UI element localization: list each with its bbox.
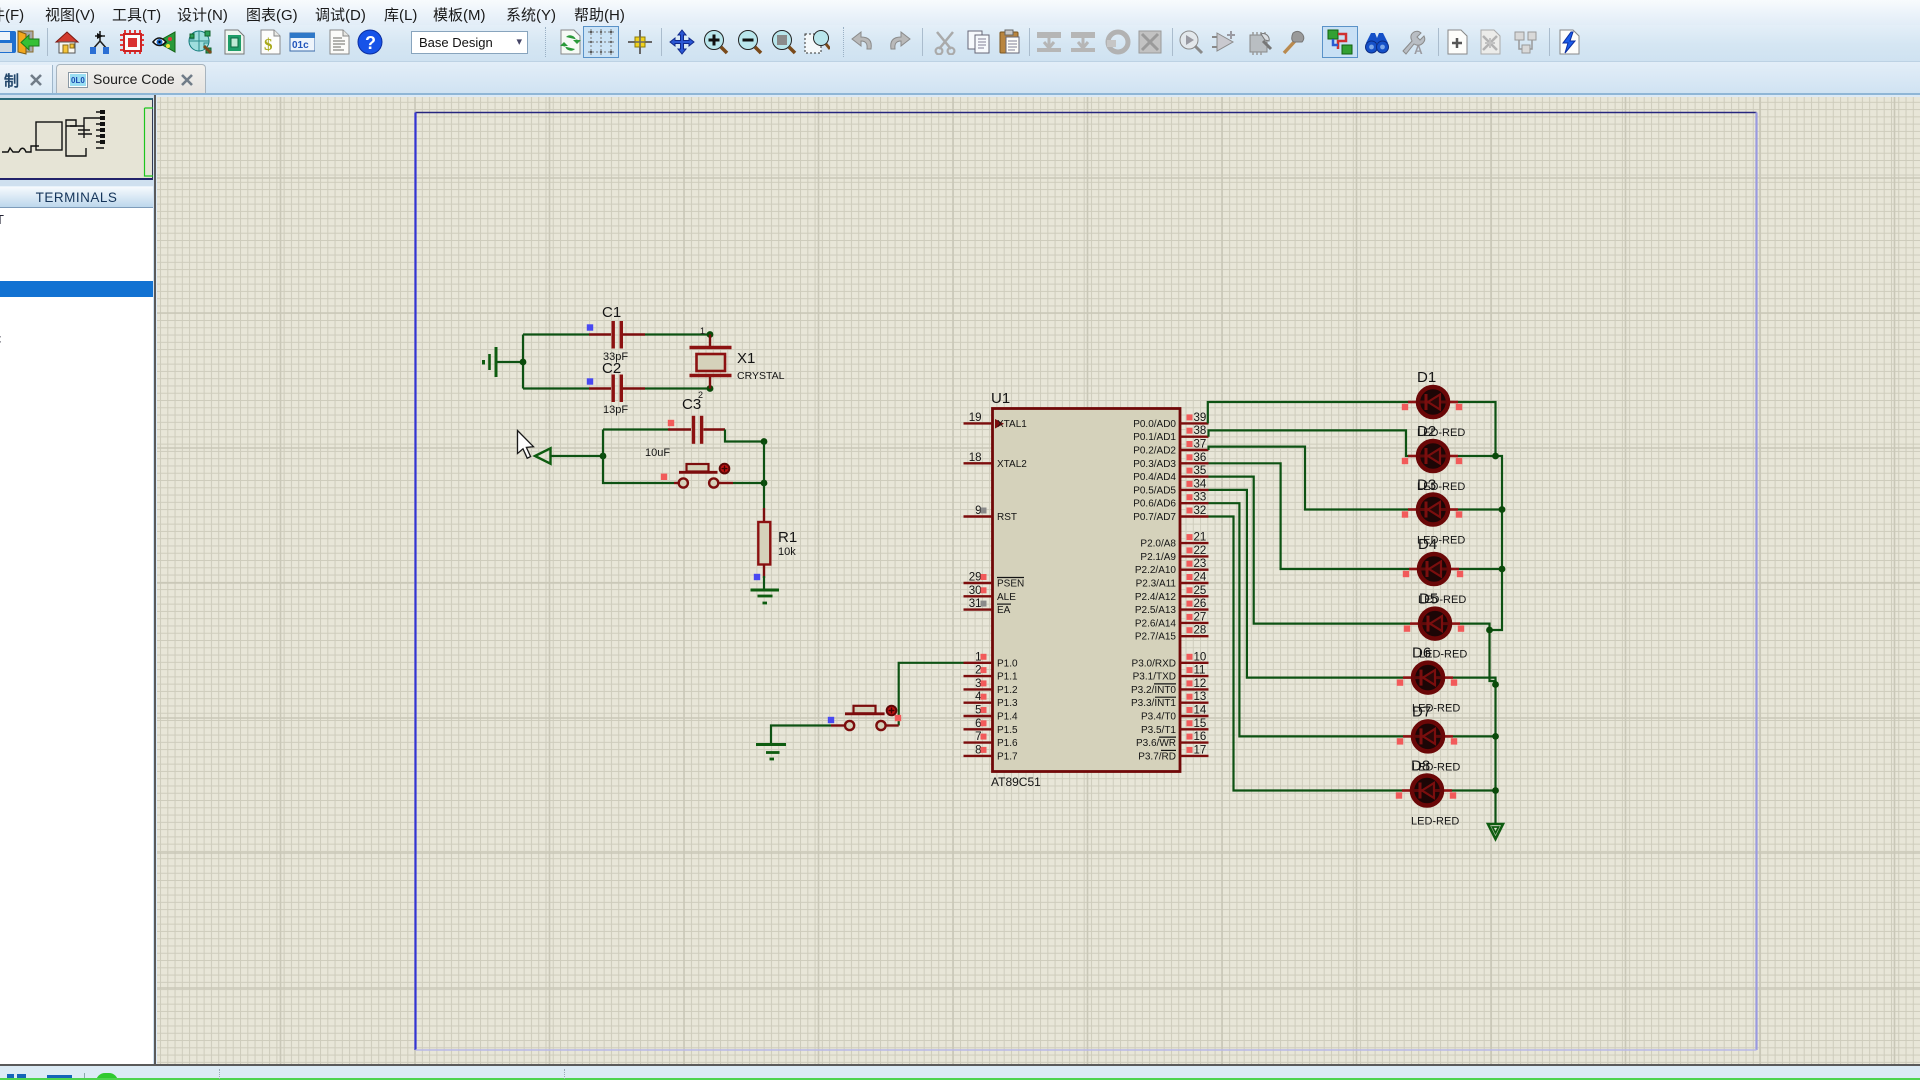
- svg-text:24: 24: [1194, 572, 1207, 584]
- svg-text:14: 14: [1194, 705, 1207, 717]
- svg-text:EA: EA: [997, 605, 1011, 616]
- svg-text:U1: U1: [991, 390, 1010, 407]
- svg-text:01c: 01c: [292, 40, 309, 51]
- LED D7: [1397, 703, 1461, 773]
- svg-text:D6: D6: [1412, 645, 1431, 662]
- wire P0 to D2: [1209, 430, 1409, 456]
- svg-text:35: 35: [1194, 465, 1207, 477]
- svg-text:D1: D1: [1417, 369, 1436, 386]
- svg-text:ALE: ALE: [997, 592, 1016, 603]
- wire button to R1 node: [733, 442, 767, 509]
- svg-text:P2.7/A15: P2.7/A15: [1135, 632, 1177, 643]
- svg-text:17: 17: [1194, 744, 1207, 756]
- svg-text:31: 31: [969, 598, 982, 610]
- svg-text:0L0: 0L0: [71, 76, 85, 85]
- svg-text:C1: C1: [602, 304, 621, 321]
- svg-text:P1.3: P1.3: [997, 698, 1018, 709]
- capacitor C3: [603, 396, 725, 459]
- wire C3-left / button row: [603, 430, 674, 484]
- svg-text:P1.6: P1.6: [997, 738, 1018, 749]
- svg-text:P3.7/RD: P3.7/RD: [1138, 751, 1176, 762]
- svg-text:25: 25: [1194, 585, 1207, 597]
- svg-text:P2.0/A8: P2.0/A8: [1140, 539, 1176, 550]
- svg-text:27: 27: [1194, 611, 1207, 623]
- ground (below R1): [751, 590, 780, 603]
- svg-text:18: 18: [969, 452, 982, 464]
- wire P0 to D5: [1209, 477, 1411, 624]
- svg-text:34: 34: [1194, 478, 1207, 490]
- wire ground to C1/C2: [497, 335, 526, 389]
- LED D2: [1402, 423, 1466, 493]
- input terminal arrow: [535, 448, 606, 463]
- svg-text:P3.0/RXD: P3.0/RXD: [1132, 658, 1176, 669]
- svg-text:10uF: 10uF: [645, 447, 670, 459]
- svg-text:XTAL2: XTAL2: [997, 459, 1027, 470]
- U1 left pins: [964, 412, 1028, 763]
- status bar: [0, 1064, 1920, 1080]
- push button (P1.0): [828, 706, 899, 730]
- svg-text:23: 23: [1194, 558, 1207, 570]
- svg-text:D3: D3: [1417, 477, 1436, 494]
- svg-text:P3.5/T1: P3.5/T1: [1141, 725, 1176, 736]
- LED D6: [1397, 645, 1461, 715]
- svg-text:P3.1/TXD: P3.1/TXD: [1133, 672, 1176, 683]
- svg-text:P2.5/A13: P2.5/A13: [1135, 605, 1177, 616]
- svg-text:32: 32: [1194, 505, 1207, 517]
- wire P0 to D3: [1209, 447, 1409, 510]
- svg-text:16: 16: [1194, 731, 1207, 743]
- svg-text:28: 28: [1194, 625, 1207, 637]
- svg-text:D5: D5: [1419, 591, 1438, 608]
- object selector sidebar: [0, 95, 156, 1064]
- svg-text:P0.6/AD6: P0.6/AD6: [1133, 499, 1176, 510]
- svg-text:15: 15: [1194, 718, 1207, 730]
- svg-text:12: 12: [1194, 678, 1207, 690]
- svg-text:P2.6/A14: P2.6/A14: [1135, 618, 1177, 629]
- svg-text:P1.5: P1.5: [997, 725, 1018, 736]
- svg-text:1: 1: [700, 326, 705, 336]
- svg-text:P3.4/T0: P3.4/T0: [1141, 712, 1176, 723]
- svg-text:P2.2/A10: P2.2/A10: [1135, 565, 1177, 576]
- svg-text:33: 33: [1194, 492, 1207, 504]
- svg-text:38: 38: [1194, 425, 1207, 437]
- svg-text:D7: D7: [1412, 703, 1431, 720]
- svg-text:P0.1/AD1: P0.1/AD1: [1133, 432, 1176, 443]
- LED D1: [1402, 369, 1466, 439]
- mouse cursor: [518, 431, 534, 459]
- U1 right pins: [1131, 412, 1209, 763]
- svg-text:13: 13: [1194, 691, 1207, 703]
- LED D4: [1403, 536, 1467, 606]
- svg-text:11: 11: [1194, 665, 1206, 677]
- svg-text:C2: C2: [602, 360, 621, 377]
- capacitor C2: [523, 360, 709, 416]
- wire P0 to D8: [1209, 517, 1403, 791]
- svg-text:P3.6/WR: P3.6/WR: [1136, 738, 1176, 749]
- svg-text:?: ?: [365, 33, 376, 53]
- svg-text:P1.4: P1.4: [997, 712, 1018, 723]
- menu bar: [0, 0, 1920, 25]
- svg-text:P0.0/AD0: P0.0/AD0: [1133, 419, 1176, 430]
- toolbar: [0, 25, 1920, 62]
- svg-text:XTAL1: XTAL1: [997, 419, 1027, 430]
- svg-text:C3: C3: [682, 396, 701, 413]
- crystal X1: [690, 326, 785, 400]
- wire LED cathode bus: [1452, 402, 1505, 824]
- svg-text:D2: D2: [1417, 423, 1436, 440]
- wire P0 to D1: [1208, 402, 1408, 423]
- svg-text:AT89C51: AT89C51: [991, 775, 1041, 789]
- svg-text:D4: D4: [1418, 536, 1437, 553]
- sheet border: [416, 113, 1757, 1051]
- svg-text:30: 30: [969, 585, 982, 597]
- capacitor C1: [523, 304, 709, 363]
- svg-text:26: 26: [1194, 598, 1207, 610]
- svg-text:CRYSTAL: CRYSTAL: [737, 370, 785, 382]
- svg-text:29: 29: [969, 572, 982, 584]
- svg-text:P0.2/AD2: P0.2/AD2: [1133, 446, 1176, 457]
- svg-text:P0.3/AD3: P0.3/AD3: [1133, 459, 1176, 470]
- LED D8: [1396, 758, 1460, 828]
- svg-text:P2.1/A9: P2.1/A9: [1140, 552, 1176, 563]
- wire P0 to D7: [1209, 503, 1404, 736]
- ground (button): [756, 745, 786, 760]
- wire button to ground: [771, 726, 831, 745]
- ground terminal (crystal net): [484, 347, 497, 377]
- svg-text:36: 36: [1194, 452, 1207, 464]
- svg-text:P2.3/A11: P2.3/A11: [1136, 579, 1177, 590]
- wire C3 to R1 node: [725, 430, 767, 445]
- svg-text:A: A: [1414, 43, 1423, 55]
- svg-text:10: 10: [1194, 651, 1207, 663]
- svg-text:10k: 10k: [778, 546, 796, 558]
- svg-text:X1: X1: [737, 350, 755, 367]
- tab bar: [0, 62, 1920, 95]
- svg-text:P1.0: P1.0: [997, 658, 1018, 669]
- svg-text:P0.7/AD7: P0.7/AD7: [1133, 512, 1176, 523]
- wire R1 to ground: [763, 576, 765, 589]
- svg-text:R1: R1: [778, 529, 797, 546]
- svg-text:D8: D8: [1411, 758, 1430, 775]
- svg-text:37: 37: [1194, 439, 1207, 451]
- svg-text:P0.5/AD5: P0.5/AD5: [1133, 485, 1176, 496]
- svg-text:$: $: [264, 35, 273, 54]
- svg-text:P0.4/AD4: P0.4/AD4: [1133, 472, 1176, 483]
- svg-text:39: 39: [1194, 412, 1207, 424]
- LED D5: [1404, 591, 1468, 661]
- svg-text:P1.1: P1.1: [997, 672, 1018, 683]
- svg-text:21: 21: [1194, 532, 1207, 544]
- svg-text:19: 19: [969, 412, 982, 424]
- wire P0 to D6: [1209, 490, 1404, 678]
- svg-text:P2.4/A12: P2.4/A12: [1135, 592, 1177, 603]
- svg-text:P1.2: P1.2: [997, 685, 1018, 696]
- svg-text:RST: RST: [997, 512, 1017, 523]
- svg-text:P3.2/INT0: P3.2/INT0: [1131, 685, 1176, 696]
- svg-text:LED-RED: LED-RED: [1411, 816, 1459, 828]
- svg-text:P3.3/INT1: P3.3/INT1: [1131, 698, 1176, 709]
- output terminal arrow (bus end): [1488, 824, 1503, 839]
- LED D3: [1402, 477, 1466, 547]
- svg-text:PSEN: PSEN: [997, 579, 1024, 590]
- svg-text:22: 22: [1194, 545, 1207, 557]
- svg-text:P1.7: P1.7: [997, 751, 1018, 762]
- wire P0 to D4: [1209, 463, 1410, 569]
- push button (RST): [661, 464, 733, 488]
- resistor R1: [754, 508, 797, 580]
- IC U1 AT89C51 body: [991, 390, 1180, 789]
- wire P1.0 to button: [895, 663, 964, 726]
- svg-text:13pF: 13pF: [603, 404, 628, 416]
